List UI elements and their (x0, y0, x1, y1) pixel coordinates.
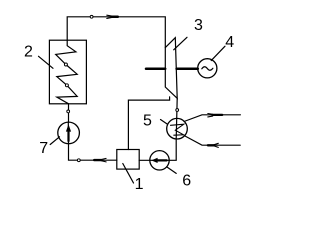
condenser 5 inner coil (171, 124, 184, 135)
svg-text:6: 6 (182, 173, 191, 190)
wire feed: tank 1 to pump 7 riser (69, 144, 117, 161)
svg-text:4: 4 (225, 34, 234, 51)
pump 7 circle (58, 122, 80, 144)
shaft right segment (177, 67, 198, 70)
condenser 5 circle (167, 118, 188, 139)
shaft left segment (146, 67, 165, 70)
svg-text:3: 3 (194, 17, 203, 34)
flow arrow left on cooling inlet (208, 143, 218, 147)
wire cooling water inlet (184, 136, 240, 146)
wire through pump 7 (67, 122, 69, 143)
label 1 pointer (123, 164, 134, 184)
node above pump 7 (67, 110, 70, 113)
pump 6 arrow left (151, 158, 166, 163)
generator 4 circle (198, 59, 217, 78)
boiler 2 box (49, 40, 86, 104)
wire cooling water outlet (184, 115, 240, 122)
label 2 pointer (39, 56, 54, 68)
generator 4 sine wave (202, 67, 213, 71)
turbine 3 body (165, 38, 177, 99)
boiler coil node upper (64, 63, 67, 66)
flow arrow left on feed line (94, 158, 106, 162)
node on steam main (90, 15, 93, 18)
wire steam main: boiler top to turbine inlet (67, 17, 165, 48)
wire condensate: condenser to pump 6 (169, 139, 176, 160)
flow arrow right on steam main (107, 15, 118, 18)
wire through condenser (175, 119, 178, 140)
wire through pump 6 (139, 159, 169, 161)
boiler 2 heating coil (56, 40, 77, 104)
svg-text:5: 5 (143, 113, 152, 130)
boiler coil node lower (65, 84, 68, 87)
pump 7 arrow up (66, 124, 71, 141)
label 6 pointer (167, 167, 177, 174)
wire exhaust: turbine to condenser (176, 98, 179, 118)
label 5 pointer (161, 120, 168, 125)
svg-text:7: 7 (39, 140, 48, 157)
label 3 pointer (174, 37, 187, 50)
node on exhaust (176, 109, 179, 112)
svg-text:1: 1 (135, 176, 144, 193)
flow arrow right on cooling outlet (208, 114, 222, 117)
tank 1 box (117, 150, 139, 170)
svg-text:2: 2 (24, 43, 33, 60)
label 7 pointer (50, 137, 59, 145)
wire extraction: turbine to tank 1 (128, 97, 169, 150)
node on feed line (77, 159, 80, 162)
pump 6 circle (150, 151, 169, 170)
wire boiler bottom to pump 7 (68, 104, 70, 122)
label 4 pointer (211, 46, 225, 60)
